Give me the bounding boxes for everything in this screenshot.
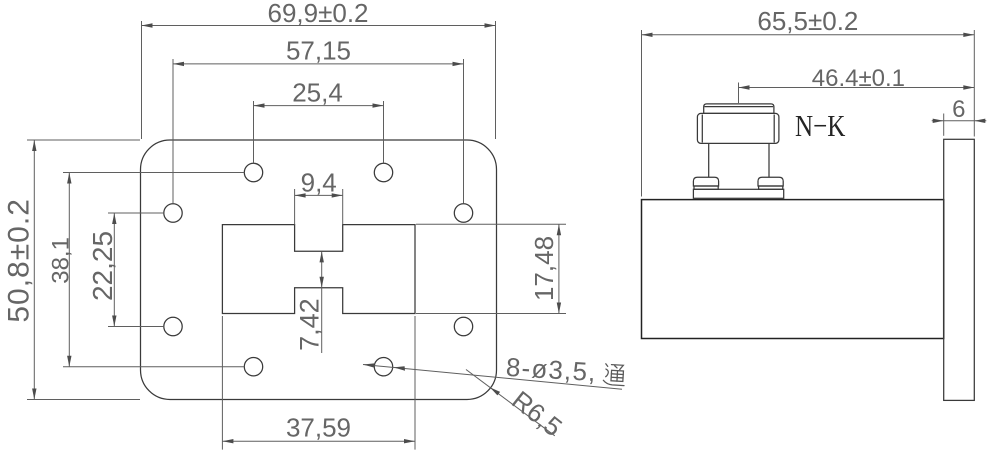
waveguide aperture (double-ridge opening) bbox=[222, 225, 415, 314]
hole H4 (upper-right of 57.15 pair) bbox=[454, 204, 472, 222]
connector left mounting foot bbox=[693, 177, 718, 189]
leader 8-Ø3,5 through-hole callout bbox=[363, 352, 626, 389]
svg-text:9,4: 9,4 bbox=[301, 168, 337, 198]
leader R6,5 corner radius callout bbox=[466, 370, 568, 443]
dimension 7,42 (ridge gap, rotated) bbox=[295, 251, 325, 353]
character 通 (through) drawn as strokes bbox=[603, 364, 625, 386]
dimension 17,48 (aperture height, rotated) bbox=[416, 224, 566, 313]
dimension 9,4 (ridge width) bbox=[295, 168, 343, 225]
svg-text:7,42: 7,42 bbox=[295, 298, 325, 351]
svg-text:N−K: N−K bbox=[795, 110, 846, 144]
svg-text:37,59: 37,59 bbox=[286, 413, 351, 443]
dimension 25,4 (inner hole column spacing) bbox=[254, 77, 384, 163]
svg-text:57,15: 57,15 bbox=[286, 35, 351, 65]
flange outline (front view, rounded square UG-style flange) bbox=[141, 140, 497, 400]
hole H5 (lower-left of 57.15 pair) bbox=[164, 317, 182, 335]
svg-text:38,1: 38,1 bbox=[48, 237, 75, 284]
svg-text:25,4: 25,4 bbox=[292, 77, 343, 107]
dimension 69,9±0.2 (overall width) bbox=[142, 0, 496, 139]
dimension 38,1 (hole row spacing, rotated) bbox=[48, 173, 245, 367]
svg-text:65,5±0.2: 65,5±0.2 bbox=[757, 6, 858, 36]
svg-text:17,48: 17,48 bbox=[529, 236, 559, 301]
side view main body block bbox=[642, 200, 944, 339]
connector base plate bbox=[693, 189, 783, 198]
dimension 65,5±0.2 (side view overall length) bbox=[642, 6, 975, 197]
dimension 50,8±0.2 (overall height, rotated) bbox=[3, 140, 140, 400]
dimension 46.4±0.1 (connector axis to flange face) bbox=[739, 65, 975, 103]
dimension 37,59 (aperture width) bbox=[222, 316, 415, 450]
hole H6 (lower-right of 57.15 pair) bbox=[454, 317, 472, 335]
coax connector N-K: body neck lines bbox=[709, 143, 769, 177]
hole H1 (top-left of 25.4 pair) bbox=[244, 163, 262, 181]
hole H7 (bottom-left of 25.4 pair) bbox=[244, 358, 262, 376]
hole H3 (upper-left of 57.15 pair) bbox=[164, 204, 182, 222]
side view flange plate (6 mm thick) bbox=[944, 139, 975, 400]
dimension 57,15 (hole column spacing) bbox=[173, 35, 464, 203]
svg-text:50,8±0.2: 50,8±0.2 bbox=[3, 198, 36, 323]
hole H2 (top-right of 25.4 pair) bbox=[374, 163, 392, 181]
svg-text:8-ø3,5,: 8-ø3,5, bbox=[505, 352, 597, 387]
dimension 6 (flange thickness) bbox=[932, 96, 987, 136]
dimension 22,25 (inner hole row spacing, rotated) bbox=[87, 213, 164, 327]
connector right mounting foot bbox=[758, 177, 783, 189]
svg-text:22,25: 22,25 bbox=[87, 231, 118, 301]
svg-text:R6,5: R6,5 bbox=[506, 385, 568, 443]
coax connector N-K: coupling nut bbox=[697, 113, 779, 143]
hole H8 (bottom-right of 25.4 pair) bbox=[374, 358, 392, 376]
svg-text:6: 6 bbox=[952, 96, 965, 123]
svg-text:69,9±0.2: 69,9±0.2 bbox=[267, 0, 368, 28]
coax connector N-K: top cap bbox=[704, 104, 774, 114]
